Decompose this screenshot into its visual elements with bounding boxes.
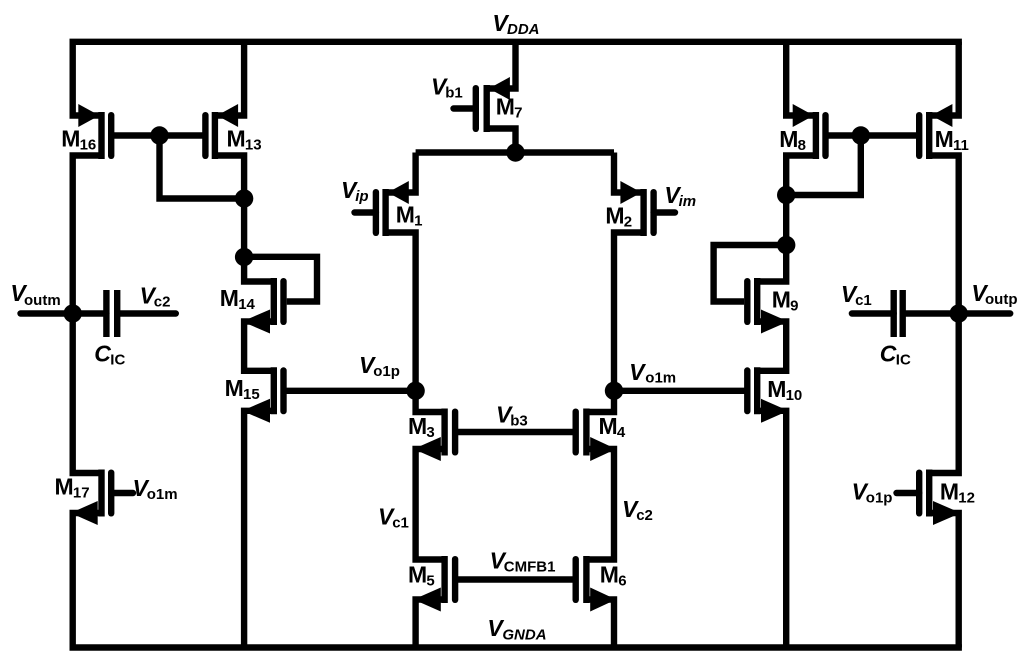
wire VDDA to M16 source xyxy=(73,42,102,116)
svg-text:2: 2 xyxy=(624,213,632,230)
junction tail node xyxy=(506,143,524,161)
svg-text:M: M xyxy=(408,562,427,588)
transistor M14 xyxy=(242,278,283,334)
label Vb3 xyxy=(496,402,528,430)
wire Vo1m to M10 gate xyxy=(614,388,747,394)
wire M5 gate to M6 gate xyxy=(455,576,576,582)
wire Voutm node to M17 drain xyxy=(73,314,102,474)
svg-text:M: M xyxy=(599,413,618,439)
svg-text:b1: b1 xyxy=(445,85,463,102)
wire M6 source to VGNDA xyxy=(586,600,614,648)
label M11 xyxy=(935,126,969,154)
wire tail to M1 source xyxy=(386,153,416,193)
wire Voutm lead xyxy=(21,310,107,316)
svg-text:17: 17 xyxy=(73,484,90,501)
wire M8 drain to M9 drain xyxy=(783,195,789,245)
wire M14 gate loop xyxy=(244,257,317,302)
svg-text:M: M xyxy=(220,285,239,311)
wire M9 drain lead xyxy=(757,245,786,282)
label Voutm xyxy=(10,280,60,309)
label Vc1 mid xyxy=(378,504,409,532)
label M7 xyxy=(496,94,523,122)
label M3 xyxy=(408,413,435,441)
ground rail VGNDA xyxy=(70,644,962,650)
svg-text:IC: IC xyxy=(110,352,125,369)
wire M13 drain down xyxy=(215,156,244,199)
svg-text:M: M xyxy=(779,126,798,152)
wire tail to M2 source xyxy=(614,153,644,193)
wire VDDA to M11 source xyxy=(929,42,959,116)
wire Vo1p to M3 drain xyxy=(416,391,445,412)
svg-text:M: M xyxy=(225,375,244,401)
label Vim xyxy=(664,182,696,210)
junction gate tie right xyxy=(852,126,870,144)
wire M2 drain to node Vo1m xyxy=(614,233,644,391)
label VDDA xyxy=(492,10,539,38)
junction node Voutm xyxy=(63,304,81,322)
label M15 xyxy=(225,375,260,403)
wire gate tie to M8 drain xyxy=(786,136,861,196)
transistor M6 xyxy=(576,556,616,612)
junction gate tie left xyxy=(150,126,168,144)
svg-text:5: 5 xyxy=(426,573,434,590)
wire M3 source to M5 drain xyxy=(416,449,445,560)
label M9 xyxy=(772,287,799,315)
svg-text:c2: c2 xyxy=(154,294,171,311)
label M12 xyxy=(940,479,975,507)
wire tail line xyxy=(416,149,614,155)
wire Voutp lead xyxy=(903,310,1011,316)
label M16 xyxy=(61,125,96,153)
transistor M10 xyxy=(747,367,788,423)
label Voutp xyxy=(971,280,1017,308)
svg-text:o1p: o1p xyxy=(866,490,893,507)
wire M5 source to VGNDA xyxy=(416,600,445,648)
transistor M11 xyxy=(919,104,952,159)
label M6 xyxy=(600,562,627,590)
svg-text:10: 10 xyxy=(786,387,803,404)
wire Vc1 lead right cap xyxy=(852,310,894,316)
junction M8 drain xyxy=(777,186,795,204)
label Vo1p at M12 xyxy=(852,479,893,507)
svg-text:8: 8 xyxy=(798,137,806,154)
transistor M17 xyxy=(71,470,133,526)
wire Vo1m to M4 drain xyxy=(586,391,614,412)
svg-text:GNDA: GNDA xyxy=(502,627,546,644)
label M14 xyxy=(220,285,256,313)
transistor M4 xyxy=(576,409,616,462)
wire M9 source to M10 drain xyxy=(757,322,786,371)
svg-text:c1: c1 xyxy=(392,515,409,532)
label VGNDA xyxy=(487,615,546,643)
wire M10 source to VGNDA xyxy=(757,411,786,648)
transistor M13 xyxy=(205,104,238,159)
svg-text:im: im xyxy=(679,193,697,210)
svg-text:M: M xyxy=(605,202,624,228)
svg-text:3: 3 xyxy=(426,424,434,441)
svg-text:outm: outm xyxy=(24,292,61,309)
wire M8 gate to M11 gate xyxy=(826,132,920,138)
svg-text:C: C xyxy=(880,341,897,367)
svg-text:C: C xyxy=(94,341,111,367)
capacitor CIC right xyxy=(894,290,903,337)
label Vo1m at M17 xyxy=(133,475,178,503)
wire M17 source to VGNDA xyxy=(73,513,102,648)
label M10 xyxy=(767,376,802,404)
label Vc2 mid xyxy=(622,496,653,524)
label M8 xyxy=(779,126,806,154)
power rail VDDA xyxy=(70,39,962,45)
capacitor CIC left xyxy=(106,290,117,337)
svg-text:M: M xyxy=(772,287,791,313)
junction M14 drain xyxy=(235,248,253,266)
svg-text:9: 9 xyxy=(790,298,798,315)
transistor M2 xyxy=(620,181,675,236)
junction node Voutp xyxy=(950,304,968,322)
label M4 xyxy=(599,413,626,441)
svg-text:o1m: o1m xyxy=(147,486,178,503)
svg-text:M: M xyxy=(227,126,246,152)
transistor M5 xyxy=(414,556,456,612)
wire M13 source to VDDA xyxy=(215,42,244,116)
label M2 xyxy=(605,202,632,230)
svg-text:13: 13 xyxy=(245,137,262,154)
svg-text:b3: b3 xyxy=(510,413,528,430)
transistor M9 xyxy=(747,278,788,334)
transistor M7 xyxy=(454,77,510,132)
label M17 xyxy=(55,473,90,501)
wire Vc2 lead left cap xyxy=(117,310,176,316)
svg-text:ip: ip xyxy=(355,188,368,205)
label Vo1m node xyxy=(629,359,676,386)
junction node Vo1m xyxy=(605,382,623,400)
transistor M15 xyxy=(242,367,283,423)
wire M15 gate to node Vo1p xyxy=(284,388,416,394)
wire M8 drain down xyxy=(786,156,816,196)
svg-text:o1m: o1m xyxy=(645,370,676,387)
svg-text:7: 7 xyxy=(514,105,522,122)
svg-text:M: M xyxy=(55,473,74,499)
label Vip xyxy=(341,177,369,205)
svg-text:M: M xyxy=(396,202,415,228)
wire M7 drain to tail node xyxy=(487,129,516,153)
svg-text:15: 15 xyxy=(243,386,260,403)
wire M14 drain lead xyxy=(244,257,274,282)
svg-text:12: 12 xyxy=(958,490,975,507)
wire M3 gate to M4 gate xyxy=(455,429,576,435)
svg-text:CMFB1: CMFB1 xyxy=(504,559,556,576)
svg-text:4: 4 xyxy=(617,424,626,441)
svg-text:11: 11 xyxy=(953,137,969,154)
wire M15 source to VGNDA xyxy=(244,411,274,648)
label Vc2 at left cap xyxy=(140,283,171,311)
transistor M1 xyxy=(355,181,409,236)
svg-text:M: M xyxy=(935,126,954,152)
label Vb1 xyxy=(431,74,463,102)
junction node Vo1p xyxy=(406,382,424,400)
transistor M12 xyxy=(897,470,961,526)
label Vo1p node xyxy=(359,352,400,380)
transistor M16 xyxy=(78,104,111,159)
svg-text:1: 1 xyxy=(414,213,422,230)
label Vc1 at right cap xyxy=(841,281,872,309)
wire Voutp node to M12 drain xyxy=(929,314,959,474)
wire M1 drain to node Vo1p xyxy=(386,233,416,391)
svg-text:M: M xyxy=(600,562,619,588)
label M13 xyxy=(227,126,262,154)
label CIC right xyxy=(880,341,911,369)
transistor M3 xyxy=(414,409,456,462)
svg-text:IC: IC xyxy=(896,352,911,369)
svg-text:16: 16 xyxy=(80,136,97,153)
svg-text:M: M xyxy=(940,479,959,505)
svg-text:DDA: DDA xyxy=(507,21,540,38)
wire VDDA to M8 source xyxy=(786,42,816,116)
svg-text:M: M xyxy=(408,413,427,439)
svg-text:6: 6 xyxy=(618,573,626,590)
svg-text:M: M xyxy=(496,94,515,120)
label VCMFB1 xyxy=(490,548,556,576)
wire M16 gate to M13 gate xyxy=(111,132,205,138)
svg-text:c1: c1 xyxy=(855,292,872,309)
wire M14 source to M15 drain xyxy=(244,322,274,371)
svg-text:o1p: o1p xyxy=(373,363,400,380)
wire gate tie to M13 drain xyxy=(160,136,245,199)
wire M11 drain to Voutp node xyxy=(929,156,959,314)
label M5 xyxy=(408,562,435,590)
junction M9 drain xyxy=(777,236,795,254)
wire M16 drain to Voutm node xyxy=(73,156,102,314)
svg-text:14: 14 xyxy=(238,296,255,313)
wire M13 drain to M14 drain xyxy=(241,199,247,258)
svg-text:M: M xyxy=(767,376,786,402)
wire M7 source to VDDA xyxy=(487,42,516,89)
wire M9 gate loop xyxy=(714,245,787,302)
svg-text:V: V xyxy=(629,359,646,385)
junction M13 drain xyxy=(235,189,253,207)
transistor M8 xyxy=(793,104,826,159)
svg-text:M: M xyxy=(61,125,80,151)
wire M12 source to VGNDA xyxy=(929,513,959,648)
wire M4 source to M6 drain xyxy=(586,449,614,560)
svg-text:outp: outp xyxy=(985,291,1017,308)
svg-text:c2: c2 xyxy=(636,507,653,524)
label CIC left xyxy=(94,341,125,369)
label M1 xyxy=(396,202,423,230)
